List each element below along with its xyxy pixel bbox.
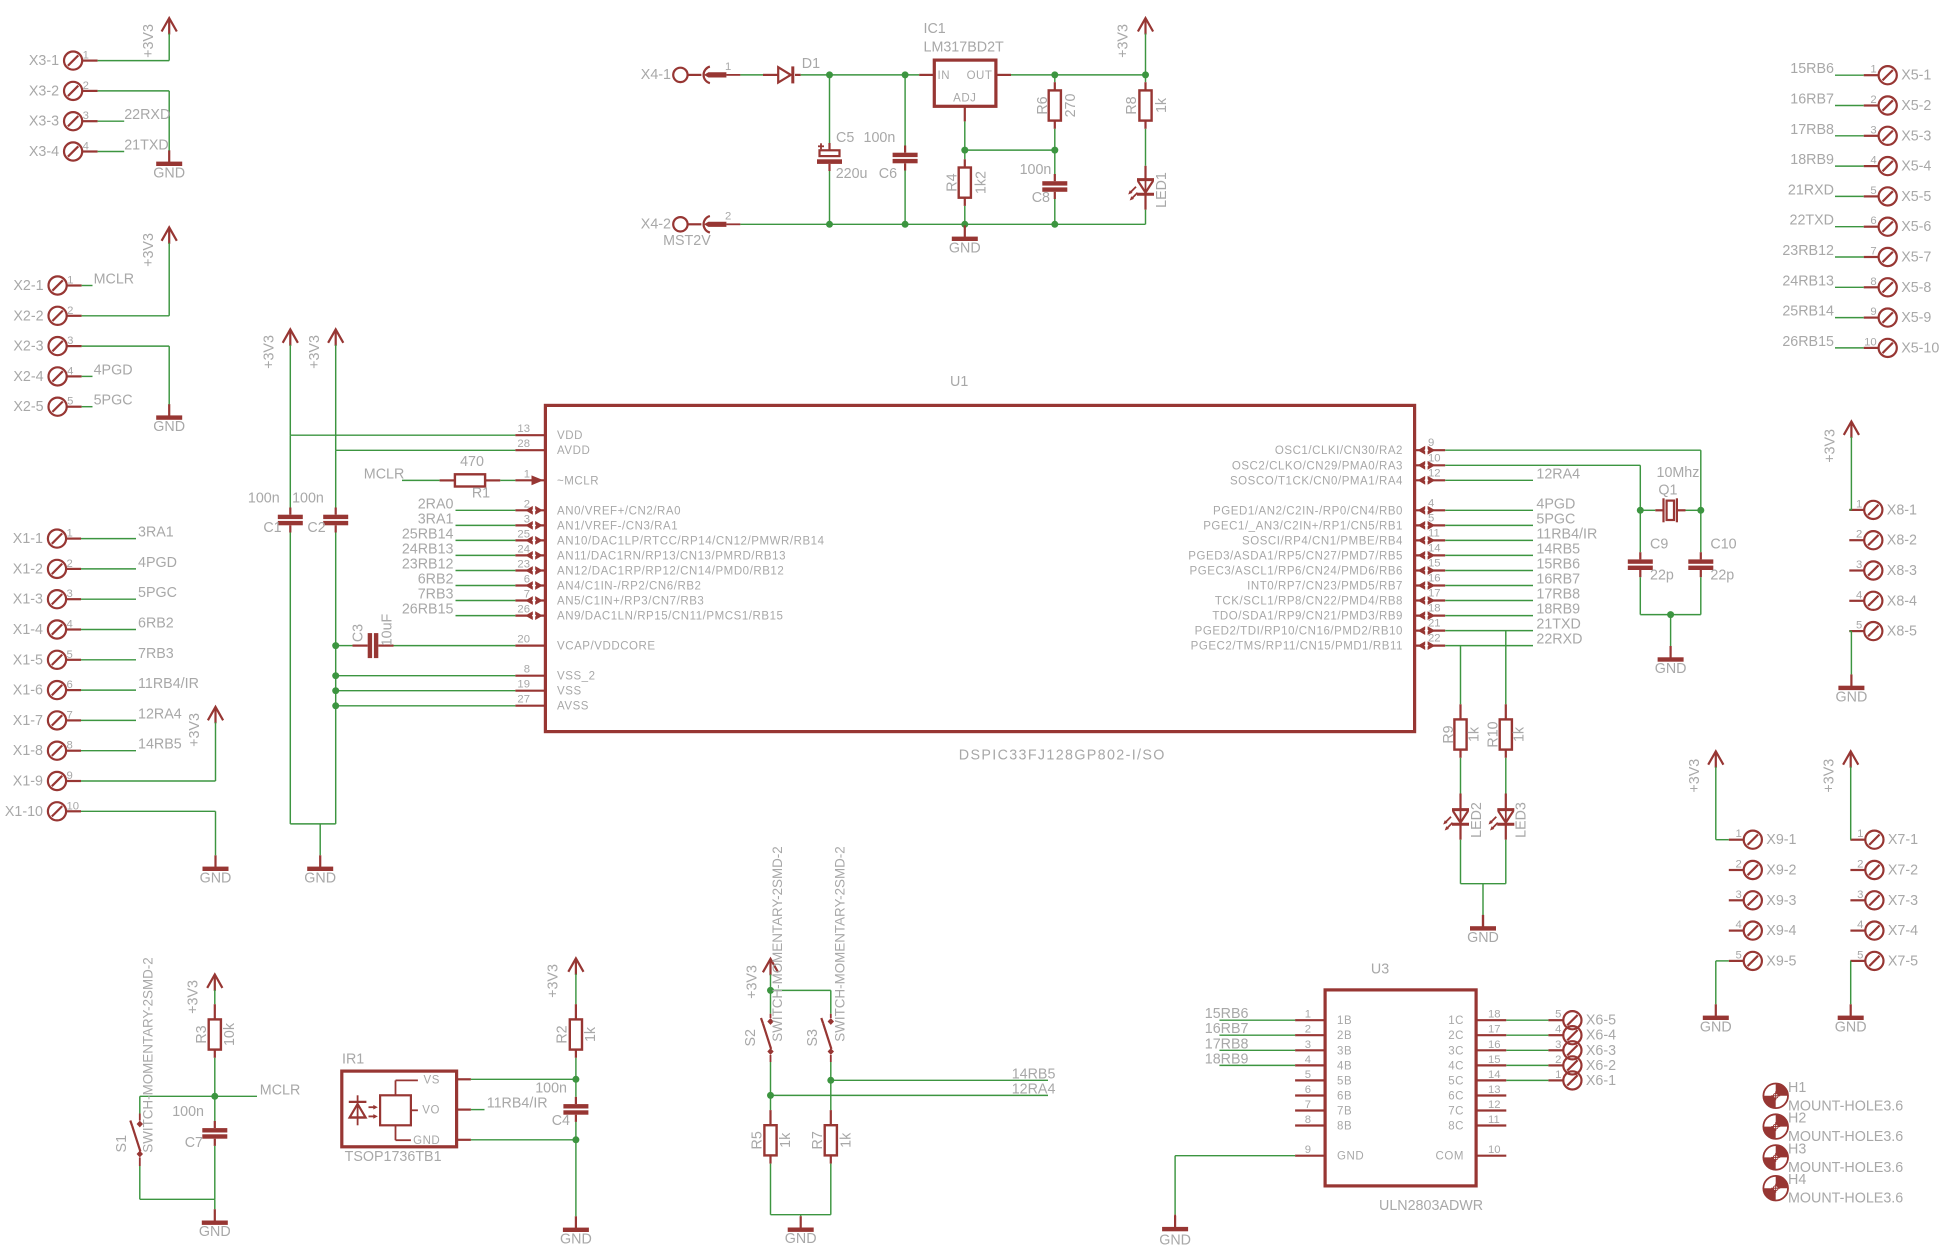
junction at C6 bottom — [902, 221, 909, 228]
svg-text:PGED3/ASDA1/RP5/CN27/PMD7/RB5: PGED3/ASDA1/RP5/CN27/PMD7/RB5 — [1188, 550, 1403, 562]
svg-text:OSC2/CLKO/CN29/PMA0/RA3: OSC2/CLKO/CN29/PMA0/RA3 — [1232, 460, 1403, 472]
mount hole H1 MOUNT-HOLE3.6 — [1763, 1080, 1903, 1115]
wire and net label 5PGC (U1 right) — [1445, 511, 1575, 527]
pin stub X5-7 — [1864, 256, 1879, 258]
wire and net label 21TXD (U1 right) — [1445, 617, 1581, 633]
svg-text:X8-4: X8-4 — [1887, 593, 1917, 609]
svg-text:3: 3 — [1305, 1039, 1311, 1051]
svg-text:2: 2 — [1856, 529, 1862, 541]
wire VDD net (+3V3 to U1 VDD) — [290, 345, 515, 435]
pin number 9 of X1-9 — [67, 770, 73, 782]
pin number 2 of X7-2 — [1857, 859, 1863, 871]
svg-text:100n: 100n — [864, 130, 896, 146]
svg-text:100n: 100n — [248, 491, 280, 507]
U3 pin 10 COM — [1436, 1144, 1507, 1163]
svg-text:23: 23 — [517, 559, 530, 571]
svg-text:R4: R4 — [945, 173, 961, 191]
wire X2-2 to +3V3 — [82, 243, 170, 316]
label X1-3 — [13, 592, 43, 608]
junction at +3V3/R8 node — [1142, 71, 1149, 78]
connector pad X3-1 — [64, 52, 82, 70]
svg-text:AN11/DAC1RN/RP13/CN13/PMRD/RB1: AN11/DAC1RN/RP13/CN13/PMRD/RB13 — [557, 550, 786, 562]
pin number 5 of X8-5 — [1856, 620, 1862, 632]
ground symbol GND (supply) — [949, 225, 981, 256]
svg-text:+3V3: +3V3 — [262, 335, 278, 369]
power symbol +3V3 (X2) — [141, 227, 177, 266]
svg-text:GND: GND — [1159, 1233, 1191, 1249]
svg-text:AN4/C1IN-/RP2/CN6/RB2: AN4/C1IN-/RP2/CN6/RB2 — [557, 581, 701, 593]
svg-text:1: 1 — [725, 61, 731, 73]
svg-text:PGEC3/ASCL1/RP6/CN24/PMD6/RB6: PGEC3/ASCL1/RP6/CN24/PMD6/RB6 — [1190, 566, 1403, 578]
svg-text:U3: U3 — [1371, 962, 1389, 978]
wire and net label 15RB6 (X5-1) — [1790, 61, 1863, 77]
svg-text:22RXD: 22RXD — [1536, 632, 1582, 648]
svg-text:X1-5: X1-5 — [13, 652, 43, 668]
connector pad X6-1 — [1563, 1071, 1581, 1089]
label X9-4 — [1766, 923, 1796, 939]
label X2-5 — [13, 399, 43, 415]
wire U3 4C to X6-2 — [1506, 1064, 1548, 1066]
U1 pin 8 VSS_2 — [515, 664, 595, 683]
power symbol +3V3 (supply output) — [1116, 18, 1154, 58]
svg-text:11RB4/IR: 11RB4/IR — [487, 1096, 548, 1112]
svg-text:18RB9: 18RB9 — [1536, 602, 1580, 618]
wire IC1 ADJ down — [964, 121, 966, 150]
svg-text:R2: R2 — [555, 1025, 571, 1043]
pin stub X7-2 — [1850, 869, 1865, 871]
pin number 2 of X8-2 — [1856, 529, 1862, 541]
svg-text:270: 270 — [1063, 94, 1079, 118]
wire +3V3 to S2/S3 node — [770, 974, 772, 990]
svg-text:21TXD: 21TXD — [124, 138, 169, 154]
label X1-5 — [13, 652, 43, 668]
wire U3 5C to X6-1 — [1506, 1079, 1548, 1081]
U3 pin 16 3C — [1448, 1039, 1506, 1058]
svg-text:X4-1: X4-1 — [641, 67, 671, 83]
svg-text:5C: 5C — [1448, 1075, 1464, 1087]
svg-text:VS: VS — [424, 1074, 440, 1086]
pin stub X5-5 — [1864, 195, 1879, 197]
wire X3-2 to GND — [98, 91, 170, 151]
pin number 1 of X3-1 — [83, 50, 89, 62]
U3 pin 17 2C — [1448, 1024, 1506, 1043]
label X7-4 — [1888, 923, 1918, 939]
ground symbol GND (U3) — [1159, 1215, 1191, 1249]
pin stub X5-9 — [1864, 317, 1879, 319]
power symbol +3V3 (X7) — [1822, 751, 1859, 792]
wire ADJ row — [965, 149, 1055, 151]
svg-text:MOUNT-HOLE3.6: MOUNT-HOLE3.6 — [1788, 1191, 1903, 1207]
svg-text:1: 1 — [1870, 64, 1876, 76]
wire S3 to R7 — [830, 1080, 832, 1110]
U1 pin 18 TDO/SDA1/RP9/CN21/PMD3/RB9 — [1212, 603, 1445, 623]
wire VSS_2 net — [336, 675, 516, 677]
svg-text:X1-8: X1-8 — [13, 743, 43, 759]
connector pad X8-5 — [1864, 622, 1882, 640]
connector pad X5-4 — [1879, 157, 1897, 175]
connector pad X1-9 — [48, 772, 66, 790]
label X5-4 — [1901, 159, 1931, 175]
svg-text:15RB6: 15RB6 — [1536, 557, 1580, 573]
label X9-2 — [1766, 863, 1796, 879]
svg-text:X6-2: X6-2 — [1586, 1058, 1616, 1074]
svg-text:C1: C1 — [263, 520, 281, 536]
wire LED2/LED3 to GND — [1461, 884, 1506, 915]
wire AVDD net (+3V3 to U1 AVDD) — [336, 345, 516, 451]
pin stub X5-3 — [1864, 135, 1879, 137]
pin stub X1-4 — [66, 628, 81, 630]
pin stub X3-1 — [82, 59, 98, 61]
wire and net label 26RB15 (X5-10) — [1782, 334, 1863, 350]
connector pad X3-4 — [64, 142, 82, 160]
svg-text:X1-9: X1-9 — [13, 774, 43, 790]
wire and net label 17RB8 (U1 right) — [1445, 587, 1580, 603]
pin number 3 of X5-3 — [1870, 124, 1876, 136]
capacitor C6 (100n) — [864, 75, 918, 224]
resistor R7 1k — [810, 1110, 855, 1215]
pin stub X2-1 — [67, 284, 82, 286]
svg-text:GND: GND — [200, 870, 232, 886]
junction at ADJ/R4 node — [961, 147, 968, 154]
svg-text:PGEC2/TMS/RP11/CN15/PMD1/RB11: PGEC2/TMS/RP11/CN15/PMD1/RB11 — [1191, 641, 1403, 653]
label X5-9 — [1901, 310, 1931, 326]
pin stub X8-1 — [1849, 509, 1864, 511]
pin number 7 of X1-7 — [67, 709, 73, 721]
svg-text:1: 1 — [1856, 498, 1862, 510]
pin stub X7-4 — [1850, 929, 1865, 931]
svg-text:C7: C7 — [185, 1135, 203, 1151]
svg-text:13: 13 — [517, 423, 530, 435]
svg-text:X3-3: X3-3 — [29, 114, 59, 130]
ground symbol GND (X9) — [1700, 1004, 1732, 1035]
wire and net label 2RA0 (U1) — [418, 496, 516, 512]
svg-text:AN12/DAC1RP/RP12/CN14/PMD0/RB1: AN12/DAC1RP/RP12/CN14/PMD0/RB12 — [557, 566, 784, 578]
pin stub X6-5 — [1548, 1019, 1563, 1021]
wire IR1 VS to R2/C4 node — [471, 1078, 576, 1080]
svg-text:26RB15: 26RB15 — [1782, 334, 1834, 350]
wire and net label 22RXD (X3-3) — [98, 107, 171, 123]
label X5-10 — [1901, 340, 1939, 356]
svg-text:5: 5 — [1736, 949, 1742, 961]
label X1-1 — [13, 531, 43, 547]
junction at R6 top — [1051, 71, 1058, 78]
connector pad X6-4 — [1563, 1026, 1581, 1044]
pin stub X2-3 — [67, 345, 82, 347]
svg-text:1: 1 — [1555, 1069, 1561, 1081]
svg-text:3RA1: 3RA1 — [418, 511, 454, 527]
label X2-4 — [13, 369, 43, 385]
wire 21TXD to R10 — [1505, 631, 1507, 705]
svg-text:10: 10 — [1488, 1144, 1501, 1156]
svg-text:1k: 1k — [583, 1026, 599, 1042]
label X1-9 — [13, 774, 43, 790]
svg-text:C3: C3 — [351, 624, 367, 642]
svg-text:100n: 100n — [292, 491, 324, 507]
IR receiver IR1 TSOP1736TB1 — [342, 1052, 471, 1165]
svg-text:X9-5: X9-5 — [1766, 953, 1796, 969]
svg-text:R7: R7 — [810, 1131, 826, 1149]
svg-text:R3: R3 — [194, 1025, 210, 1043]
svg-text:5: 5 — [1857, 949, 1863, 961]
wire R4 bottom to GND — [964, 224, 966, 225]
pin number 4 of X2-4 — [67, 365, 73, 377]
connector pad X8-1 — [1864, 501, 1882, 519]
pin stub X3-3 — [82, 120, 98, 122]
U1 pin 23 AN12/DAC1RP/RP12/CN14/PMD0/RB12 — [515, 559, 784, 578]
junction C4 bottom/GND node — [572, 1136, 579, 1143]
svg-text:21TXD: 21TXD — [1536, 617, 1581, 633]
svg-text:GND: GND — [1835, 1019, 1867, 1035]
pin number 1 of X7-1 — [1857, 828, 1863, 840]
pin stub X9-1 — [1729, 839, 1744, 841]
svg-text:H4: H4 — [1788, 1172, 1806, 1188]
voltage regulator IC1 LM317BD2T — [919, 21, 1011, 121]
svg-text:4PGD: 4PGD — [138, 555, 177, 571]
svg-text:X1-1: X1-1 — [13, 531, 43, 547]
pin number 3 of X7-3 — [1857, 889, 1863, 901]
U3 pin 8 8B — [1295, 1114, 1352, 1133]
svg-text:X6-4: X6-4 — [1586, 1028, 1616, 1044]
wire U3 2C to X6-4 — [1506, 1034, 1548, 1036]
U3 pin 18 1C — [1448, 1009, 1506, 1027]
svg-text:2B: 2B — [1337, 1030, 1352, 1042]
pin stub X9-3 — [1729, 899, 1744, 901]
U3 pin 4 4B — [1295, 1054, 1352, 1073]
svg-text:X5-3: X5-3 — [1901, 128, 1931, 144]
pin number 1 of X2-1 — [67, 275, 73, 287]
svg-text:ADJ: ADJ — [953, 93, 976, 105]
svg-text:X6-5: X6-5 — [1586, 1013, 1616, 1029]
svg-text:4PGD: 4PGD — [1536, 496, 1575, 512]
svg-text:7RB3: 7RB3 — [418, 587, 454, 603]
U3 pin 11 8C — [1448, 1114, 1506, 1133]
ground symbol GND (crystal) — [1655, 646, 1687, 677]
resistor R3 10k — [194, 990, 238, 1096]
svg-text:X5-7: X5-7 — [1901, 250, 1931, 266]
pin number 4 of X7-4 — [1857, 919, 1863, 931]
connector pad X1-3 — [48, 590, 66, 608]
pin stub X5-2 — [1864, 104, 1879, 106]
mount hole H3 MOUNT-HOLE3.6 — [1763, 1141, 1903, 1176]
connector pad X9-4 — [1744, 922, 1762, 940]
label X7-2 — [1888, 863, 1918, 879]
svg-text:X2-4: X2-4 — [13, 369, 43, 385]
svg-text:2C: 2C — [1448, 1030, 1464, 1042]
svg-text:IR1: IR1 — [342, 1052, 364, 1068]
svg-text:GND: GND — [560, 1231, 592, 1247]
label X7-3 — [1888, 893, 1918, 909]
pin number 1 of X5-1 — [1870, 64, 1876, 76]
connector pad X1-8 — [48, 742, 66, 760]
svg-text:7: 7 — [1305, 1099, 1311, 1111]
svg-text:3B: 3B — [1337, 1045, 1352, 1057]
wire U1 pin 10 to crystal left node — [1445, 465, 1640, 510]
svg-text:+3V3: +3V3 — [187, 713, 203, 747]
label X1-6 — [13, 683, 43, 699]
wire and net label 18RB9 (U3 pin 4) — [1205, 1051, 1295, 1067]
wire and net label 7RB3 (U1) — [418, 587, 516, 603]
svg-text:R1: R1 — [472, 486, 490, 502]
svg-text:X8-2: X8-2 — [1887, 533, 1917, 549]
label X2-2 — [13, 308, 43, 324]
pin number 2 of X1-2 — [67, 558, 73, 570]
wire X8-5 to GND — [1849, 631, 1851, 674]
svg-text:X7-3: X7-3 — [1888, 893, 1918, 909]
wire and net label 4PGD (U1 right) — [1445, 496, 1575, 512]
connector pad X5-3 — [1879, 127, 1897, 145]
svg-text:+3V3: +3V3 — [186, 980, 202, 1014]
svg-text:2: 2 — [725, 210, 731, 222]
svg-text:TDO/SDA1/RP9/CN21/PMD3/RB9: TDO/SDA1/RP9/CN21/PMD3/RB9 — [1212, 611, 1403, 623]
LED LED1 — [1128, 166, 1170, 225]
wire and net label 23RB12 (X5-7) — [1782, 243, 1863, 259]
svg-text:11: 11 — [1488, 1114, 1500, 1126]
pin number 2 of X9-2 — [1736, 859, 1742, 871]
svg-text:6RB2: 6RB2 — [138, 616, 174, 632]
label X7-1 — [1888, 832, 1918, 848]
connector pad X5-8 — [1879, 278, 1897, 296]
svg-text:10Mhz: 10Mhz — [1657, 465, 1700, 481]
svg-text:X2-3: X2-3 — [13, 339, 43, 355]
U1 pin 19 VSS — [515, 679, 581, 698]
power symbol +3V3 (AVDD rail) — [307, 329, 343, 368]
svg-text:C5: C5 — [836, 130, 854, 146]
svg-text:R10: R10 — [1485, 721, 1501, 747]
wire and net label 12RA4 (X1-7) — [81, 706, 182, 722]
svg-text:TCK/SCL1/RP8/CN22/PMD4/RB8: TCK/SCL1/RP8/CN22/PMD4/RB8 — [1215, 596, 1403, 608]
svg-text:17RB8: 17RB8 — [1205, 1036, 1249, 1052]
power symbol +3V3 (S2/S3) — [744, 959, 778, 999]
svg-text:LM317BD2T: LM317BD2T — [924, 40, 1005, 56]
resistor R2 1k — [555, 974, 600, 1080]
svg-text:6B: 6B — [1337, 1091, 1352, 1103]
svg-text:C4: C4 — [552, 1113, 570, 1129]
wire and net label 6RB2 (X1-4) — [81, 616, 174, 632]
pin stub X5-6 — [1864, 226, 1879, 228]
label X5-3 — [1901, 128, 1931, 144]
wire C4 node to GND — [575, 1140, 577, 1217]
wire X8-1 to +3V3 — [1849, 437, 1851, 510]
svg-text:LED3: LED3 — [1514, 802, 1530, 838]
svg-text:1B: 1B — [1337, 1015, 1352, 1027]
wire and net label 25RB14 (X5-9) — [1782, 304, 1863, 320]
label X8-2 — [1887, 533, 1917, 549]
svg-text:SOSCI/RP4/CN1/PMBE/RB4: SOSCI/RP4/CN1/PMBE/RB4 — [1242, 535, 1403, 547]
pin number 8 of X5-8 — [1870, 276, 1876, 288]
U3 pin 2 2B — [1295, 1024, 1352, 1043]
svg-text:1: 1 — [1736, 828, 1742, 840]
svg-text:GND: GND — [199, 1224, 231, 1240]
connector pad X2-1 — [49, 276, 67, 294]
svg-text:2: 2 — [1555, 1054, 1561, 1066]
wire and net label 15RB6 (U1 right) — [1445, 557, 1580, 573]
pin number 4 of X9-4 — [1736, 919, 1742, 931]
wire and net label 21TXD (X3-4) — [98, 138, 169, 154]
svg-text:16: 16 — [1488, 1039, 1501, 1051]
connector pad X8-2 — [1864, 531, 1882, 549]
svg-text:VDD: VDD — [557, 430, 583, 442]
connector pad X8-3 — [1864, 561, 1882, 579]
pin number 3 of X8-3 — [1856, 559, 1862, 571]
svg-text:GND: GND — [153, 166, 185, 182]
svg-text:17RB8: 17RB8 — [1536, 587, 1580, 603]
svg-text:AN5/C1IN+/RP3/CN7/RB3: AN5/C1IN+/RP3/CN7/RB3 — [557, 596, 704, 608]
svg-text:C2: C2 — [307, 520, 325, 536]
label X9-5 — [1766, 953, 1796, 969]
svg-text:PGEC1/_AN3/C2IN+/RP1/CN5/RB1: PGEC1/_AN3/C2IN+/RP1/CN5/RB1 — [1203, 520, 1403, 532]
connector pad X1-6 — [48, 681, 66, 699]
svg-text:COM: COM — [1436, 1151, 1464, 1163]
U1 pin 15 PGEC3/ASCL1/RP6/CN24/PMD6/RB6 — [1190, 558, 1446, 578]
svg-text:H2: H2 — [1788, 1111, 1806, 1127]
svg-text:3RA1: 3RA1 — [138, 525, 174, 541]
wire and net label 16RB7 (X5-2) — [1790, 92, 1863, 108]
svg-text:26RB15: 26RB15 — [402, 602, 454, 618]
capacitor C2 (100n) — [292, 450, 348, 824]
svg-text:4: 4 — [1856, 589, 1862, 601]
svg-text:C6: C6 — [879, 166, 897, 182]
wire and net label 17RB8 (X5-3) — [1790, 122, 1863, 138]
wire D1 to IC1 IN — [801, 74, 920, 76]
svg-text:14RB5: 14RB5 — [1012, 1066, 1056, 1082]
connector pad X7-2 — [1865, 861, 1883, 879]
label X5-6 — [1901, 219, 1931, 235]
svg-text:GND: GND — [153, 419, 185, 435]
wire X4-1 to D1 — [740, 74, 763, 76]
svg-text:3: 3 — [1870, 124, 1876, 136]
wire supply node to S3 — [771, 990, 831, 1013]
U1 pin 14 PGED3/ASDA1/RP5/CN27/PMD7/RB5 — [1188, 542, 1445, 562]
wire U3 3C to X6-3 — [1506, 1049, 1548, 1051]
svg-text:15: 15 — [1488, 1054, 1501, 1066]
pin stub X5-8 — [1864, 286, 1879, 288]
connector pad X6-3 — [1563, 1041, 1581, 1059]
svg-text:6: 6 — [1870, 215, 1876, 227]
label X8-3 — [1887, 563, 1917, 579]
label X5-2 — [1901, 98, 1931, 114]
wire and net label 5PGC (X1-3) — [81, 585, 177, 601]
label X2-1 — [13, 278, 43, 294]
svg-text:10k: 10k — [222, 1022, 238, 1046]
svg-text:R6: R6 — [1035, 96, 1051, 114]
U1 pin 6 AN4/C1IN-/RP2/CN6/RB2 — [515, 574, 701, 593]
wire and net label 24RB13 (U1) — [402, 541, 516, 557]
svg-text:MST2V: MST2V — [663, 233, 711, 249]
svg-text:4: 4 — [1305, 1054, 1311, 1066]
wire and net label 22RXD (U1 right) — [1445, 632, 1582, 648]
label X3-1 — [29, 53, 59, 69]
pin number 3 of X2-3 — [67, 335, 73, 347]
svg-text:+3V3: +3V3 — [1822, 429, 1838, 463]
svg-text:X2-1: X2-1 — [13, 278, 43, 294]
label X1-7 — [13, 713, 43, 729]
wire 22RXD to R9 — [1460, 646, 1462, 705]
svg-text:X3-2: X3-2 — [29, 83, 59, 99]
label X5-1 — [1901, 68, 1931, 84]
svg-text:X7-2: X7-2 — [1888, 863, 1918, 879]
LED LED3 — [1489, 794, 1530, 884]
connector pad X2-2 — [49, 307, 67, 325]
connector pad X5-5 — [1879, 187, 1897, 205]
svg-text:13: 13 — [1488, 1084, 1501, 1096]
svg-text:25RB14: 25RB14 — [402, 526, 454, 542]
svg-text:GND: GND — [413, 1135, 440, 1147]
svg-text:X8-3: X8-3 — [1887, 563, 1917, 579]
label X9-1 — [1766, 832, 1796, 848]
svg-text:GND: GND — [785, 1231, 817, 1247]
label X8-4 — [1887, 593, 1917, 609]
svg-text:PGED1/AN2/C2IN-/RP0/CN4/RB0: PGED1/AN2/C2IN-/RP0/CN4/RB0 — [1213, 505, 1403, 517]
